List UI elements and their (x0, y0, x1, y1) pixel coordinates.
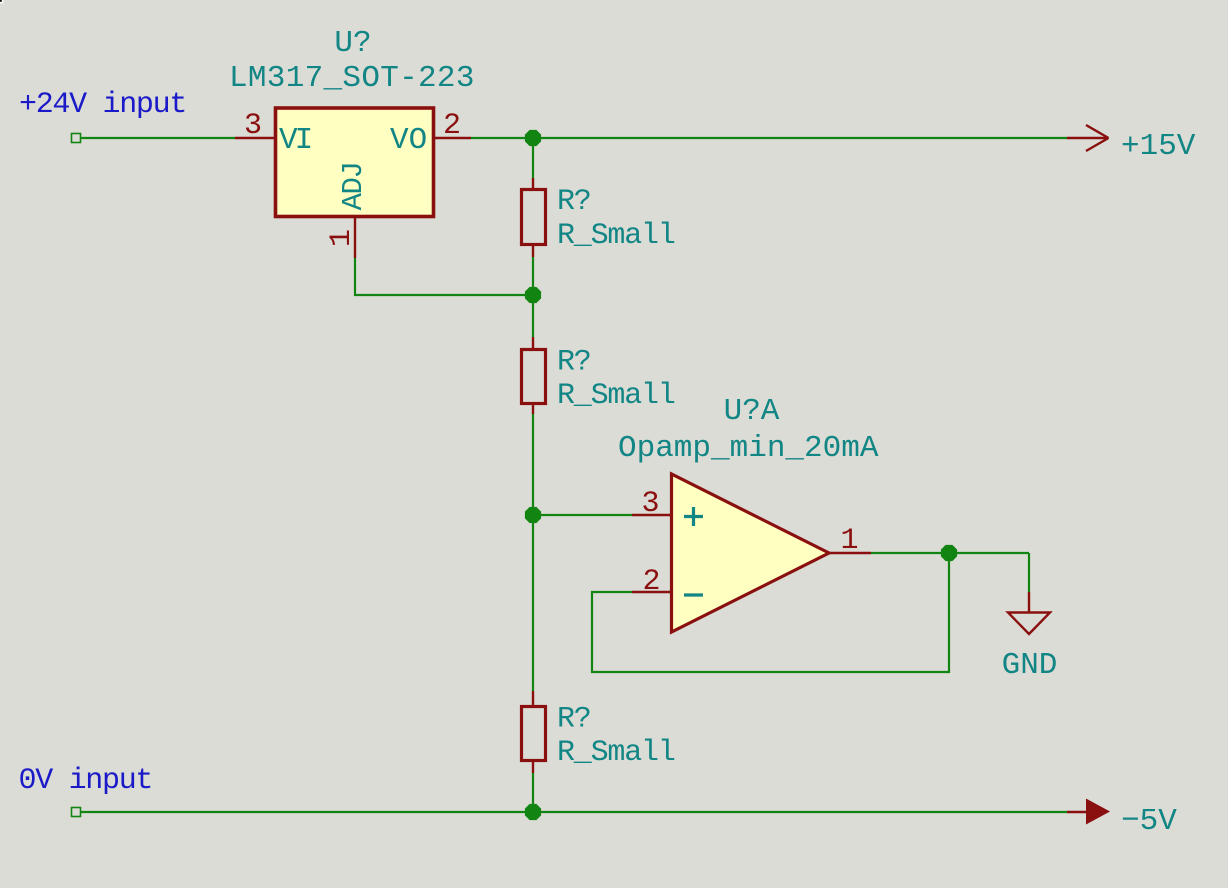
plus sign (684, 507, 703, 526)
pin 3 (VI) (235, 137, 274, 139)
svg-text:3: 3 (244, 109, 262, 143)
svg-text:R_Small: R_Small (557, 379, 675, 413)
resistor R3 pins (532, 691, 534, 773)
wire: output to junction (871, 552, 1029, 554)
svg-text:U?A: U?A (724, 394, 780, 429)
svg-text:VO: VO (390, 123, 427, 158)
wire: R3 to 0V net (532, 773, 534, 812)
svg-text:3: 3 (641, 487, 659, 521)
wire: mid node to opamp + (533, 514, 632, 516)
junction at VO/R1 (525, 130, 541, 146)
svg-text:Opamp_min_20mA: Opamp_min_20mA (618, 431, 879, 466)
svg-text:2: 2 (443, 109, 461, 143)
resistor R2 body (522, 350, 546, 404)
svg-text:+15V: +15V (1121, 129, 1196, 164)
svg-text:1: 1 (840, 524, 858, 558)
wire: output node to GND (1028, 553, 1030, 592)
resistor R1 body (522, 190, 546, 245)
wire (81, 137, 235, 139)
resistor R3 body (522, 707, 546, 761)
svg-text:ADJ: ADJ (337, 163, 370, 211)
junction mid node (525, 507, 541, 523)
wire: +24V input net (72, 134, 236, 143)
svg-text:R?: R? (557, 346, 591, 380)
power symbol -5V (1067, 811, 1088, 813)
svg-text:−5V: −5V (1121, 804, 1177, 839)
regulator U? LM317_SOT-223 body (276, 108, 434, 217)
svg-text:0V input: 0V input (19, 764, 153, 798)
svg-text:R?: R? (557, 703, 591, 737)
svg-text:U?: U? (334, 26, 371, 61)
resistor R2 pins (532, 337, 534, 414)
svg-text:2: 2 (642, 565, 660, 599)
svg-text:R?: R? (557, 185, 591, 219)
junction bottom node (525, 804, 541, 820)
wire: R2 to mid node to R3 (532, 414, 534, 691)
dangling end square (72, 134, 81, 143)
resistor R1 pins (532, 178, 534, 257)
svg-text:R_Small: R_Small (557, 219, 675, 253)
junction output node (941, 545, 957, 561)
svg-text:+24V input: +24V input (19, 88, 186, 122)
wire: R1 to node2 to R2 (532, 257, 534, 337)
minus sign (684, 593, 703, 596)
wire: node to R1 (532, 138, 534, 178)
pin 2 (VO) (435, 137, 471, 139)
op-amp pin 2 (-) (632, 591, 671, 593)
GND symbol (1008, 592, 1050, 634)
svg-text:LM317_SOT-223: LM317_SOT-223 (229, 61, 475, 96)
pin 1 (ADJ) (354, 218, 356, 258)
power symbol +15V (1067, 125, 1109, 151)
svg-text:R_Small: R_Small (557, 736, 675, 770)
wire: 0V input net (72, 808, 1068, 817)
op-amp pin 3 (+) (632, 514, 671, 516)
svg-text:1: 1 (325, 229, 359, 247)
wire: feedback loop (592, 553, 949, 672)
wire: VO net top (471, 137, 1067, 139)
wire: ADJ to divider node (355, 258, 533, 295)
op-amp U?A body (672, 474, 830, 632)
svg-text:VI: VI (279, 123, 311, 158)
corner artifact (0, 0, 4, 4)
op-amp pin 1 (out) (829, 552, 871, 554)
svg-text:GND: GND (1002, 648, 1058, 683)
junction ADJ node (525, 287, 541, 303)
